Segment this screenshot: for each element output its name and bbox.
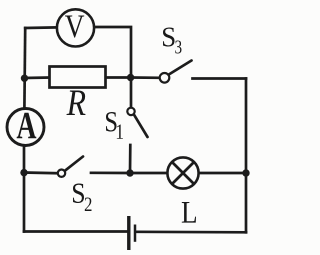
lamp L cross	[172, 162, 194, 184]
wire node to S3 pivot	[131, 76, 160, 79]
wire S1 vertical top (node to S1)	[130, 77, 133, 107]
battery long plate	[127, 216, 130, 250]
wire R row right (resistor to node)	[106, 76, 131, 79]
switch S1 pivot circle	[127, 108, 134, 115]
switch S2 pivot circle	[58, 170, 65, 177]
wire S3 to right vertical	[193, 77, 247, 80]
wire R row left (node to resistor)	[24, 76, 50, 79]
wire left vertical lower (S2 junction to bottom corner)	[23, 173, 26, 232]
switch S1 lever	[134, 115, 148, 137]
node dot S1/S2/lamp junction	[126, 169, 133, 176]
wire lamp row left (junction to lamp)	[130, 172, 167, 175]
wire bottom right (battery to right corner)	[137, 230, 246, 233]
ammeter A circle	[7, 109, 44, 146]
node dot lamp right junction	[242, 169, 249, 176]
switch S2 label	[73, 184, 84, 203]
lamp L label	[182, 202, 196, 223]
lamp L circle	[167, 157, 198, 188]
switch S3 lever	[169, 61, 192, 75]
switch S3 label	[163, 27, 174, 46]
voltmeter V circle	[57, 9, 94, 46]
wire top-right horizontal and corner down to node	[95, 27, 132, 77]
node dot left of R	[21, 75, 28, 82]
ammeter A letter	[17, 113, 37, 138]
resistor R box	[50, 67, 106, 88]
resistor R label	[66, 90, 85, 115]
wire left vertical middle (ammeter to S2 junction)	[23, 147, 26, 173]
wire bottom left (corner to battery)	[24, 230, 127, 233]
node dot S2 left junction	[20, 169, 27, 176]
wire right vertical	[245, 79, 248, 233]
wire S2 row right (S2 contact to junction)	[91, 171, 130, 174]
wire S2 row left (junction to S2 pivot)	[24, 171, 57, 174]
wire lamp row right (lamp to right vertical)	[198, 172, 246, 175]
battery short plate	[134, 225, 137, 242]
switch S2 lever	[66, 157, 83, 171]
wire top-left horizontal (left corner to voltmeter)	[25, 26, 56, 29]
wire S1 vertical bottom (S1 to junction)	[129, 145, 132, 173]
switch S3 pivot circle	[160, 73, 170, 83]
wire left vertical upper (corner to ammeter)	[23, 28, 27, 108]
switch S1 label	[106, 112, 117, 131]
voltmeter V letter	[65, 15, 84, 37]
node dot right of R	[127, 74, 134, 81]
